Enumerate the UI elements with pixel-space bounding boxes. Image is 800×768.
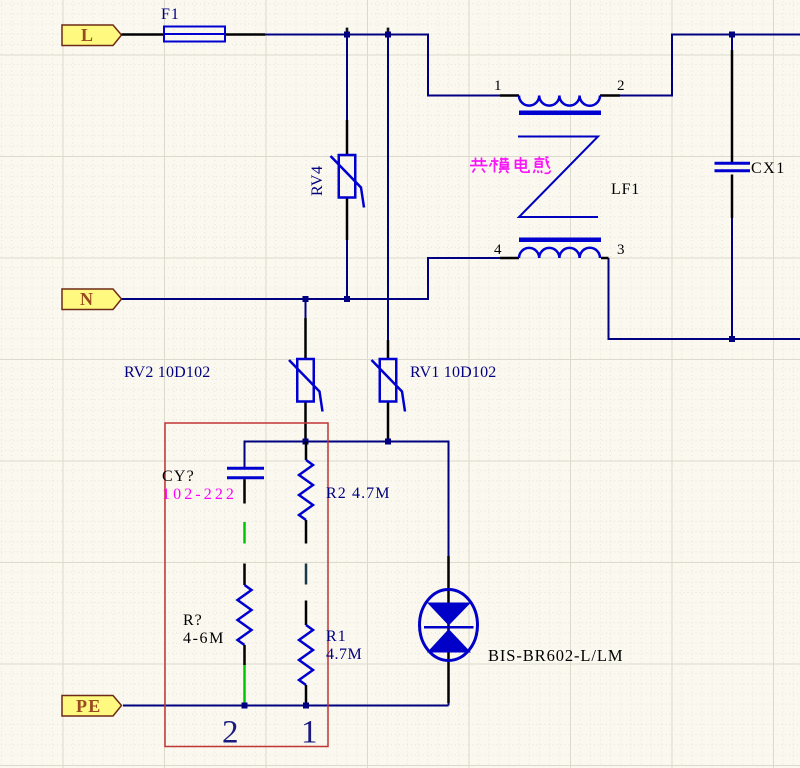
svg-text:102-222: 102-222 [162, 486, 237, 503]
wire RV2 stub [305, 299, 307, 318]
wire BIS bottom to PE [448, 694, 450, 706]
svg-text:PE: PE [76, 696, 101, 716]
junction PE right [303, 703, 309, 709]
wire L top: fuse output to corner, down and to choke pin 1 [265, 35, 500, 96]
svg-text:2: 2 [617, 78, 625, 94]
capacitor CX1 [715, 50, 751, 218]
svg-text:R2 4.7M: R2 4.7M [326, 485, 391, 502]
junction box right [385, 439, 391, 445]
wire choke pin 3 down to bottom right edge [609, 258, 800, 339]
svg-text:3: 3 [617, 242, 625, 258]
junction top 2 [385, 32, 391, 38]
svg-text:4-6M: 4-6M [183, 630, 225, 647]
wire L port to fuse (black pin) [122, 33, 165, 36]
svg-text:R1: R1 [326, 628, 347, 645]
svg-text:R?: R? [183, 612, 203, 629]
wire RV1 vertical feed [387, 35, 389, 341]
port PE [62, 696, 122, 717]
svg-text:N: N [80, 289, 93, 309]
red group box [165, 423, 328, 747]
fuse F1 [164, 27, 265, 42]
junction CX1 bottom [729, 336, 735, 342]
junction top 1 [344, 32, 350, 38]
svg-text:2: 2 [222, 715, 239, 751]
resistor R2 [299, 442, 313, 544]
pin above R1 [305, 601, 308, 626]
svg-text:1: 1 [301, 715, 318, 751]
wire RV4 vertical [346, 35, 348, 300]
capacitor CY? [227, 468, 264, 503]
svg-text:BIS-BR602-L/LM: BIS-BR602-L/LM [488, 646, 623, 665]
dark dash mid right branch [305, 564, 308, 585]
common mode choke LF1 [500, 96, 620, 259]
svg-text:4.7M: 4.7M [326, 646, 362, 663]
label CJK 共模电感 (drawn strokes) [470, 157, 551, 174]
resistor R1 [299, 625, 313, 706]
svg-text:LF1: LF1 [611, 181, 640, 198]
junction PE left [242, 703, 248, 709]
varistor RV4 [331, 120, 365, 240]
svg-text:4: 4 [494, 242, 502, 258]
wire N: port to corner up to choke pin 4 [121, 258, 500, 299]
port L [62, 25, 122, 46]
svg-text:L: L [81, 25, 93, 45]
wire choke pin 2 to top right edge [620, 35, 800, 96]
junction N RV4 [344, 296, 350, 302]
wire box top horizontal and BIS loop [245, 442, 449, 557]
varistor RV2 [289, 318, 323, 442]
gas discharge tube BIS [420, 556, 478, 703]
svg-text:CX1: CX1 [751, 160, 786, 177]
wire CX1 vertical [731, 35, 733, 340]
svg-text:RV2 10D102: RV2 10D102 [124, 364, 211, 381]
svg-text:CY?: CY? [162, 468, 195, 485]
green dash to PE [243, 665, 246, 703]
varistor RV1 [372, 340, 406, 442]
junction box left [303, 439, 309, 445]
svg-text:F1: F1 [161, 6, 180, 23]
junction N RV2 [303, 296, 309, 302]
pin below R? [243, 645, 246, 665]
dashed wire left branch (green dashes) [243, 522, 246, 544]
junction CX1 top [729, 32, 735, 38]
port N [62, 289, 122, 310]
resistor R? [238, 585, 252, 645]
wire PE: port to right corner [123, 705, 449, 707]
svg-text:1: 1 [494, 78, 502, 94]
svg-text:RV1 10D102: RV1 10D102 [410, 364, 497, 381]
svg-text:RV4: RV4 [309, 166, 326, 196]
